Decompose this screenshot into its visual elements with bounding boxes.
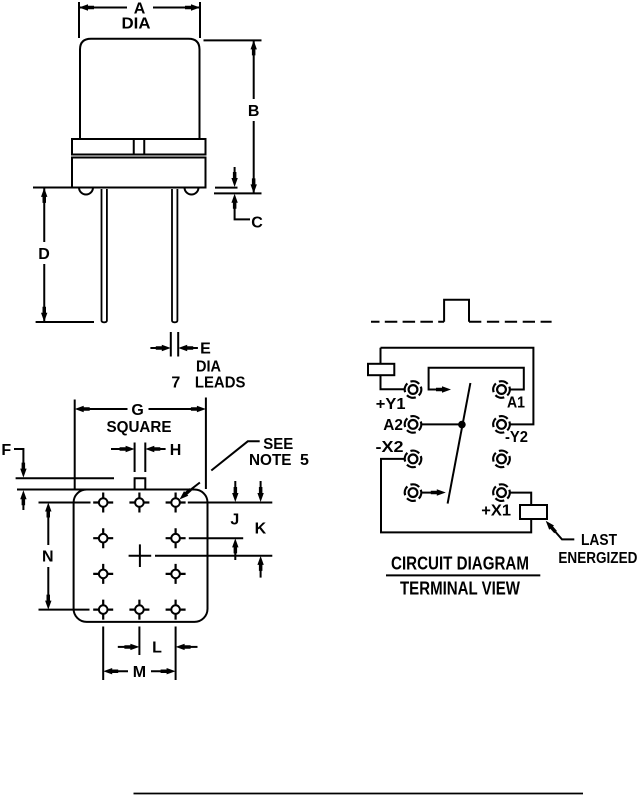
standoff foot left [79,188,93,195]
dimension K upper arrow [260,481,262,492]
svg-text:J: J [230,511,239,528]
terminal +X1 [491,482,512,503]
note 5 callout arrowhead [180,488,192,499]
svg-text:CIRCUIT DIAGRAM: CIRCUIT DIAGRAM [391,554,529,574]
terminal +Y1 [402,379,423,400]
coil X [520,505,547,519]
svg-text:-X2: -X2 [376,439,404,456]
svg-text:NOTE: NOTE [249,452,292,469]
svg-text:SQUARE: SQUARE [107,419,172,436]
svg-text:F: F [1,442,11,459]
dimension H left arrow [111,448,124,450]
dimension K lower arrow [257,556,263,571]
dimension F up arrow [20,490,26,505]
terminal pin row1 col1 [93,493,113,513]
dimension N arrowhead bottom [45,595,51,610]
svg-text:E: E [200,340,211,357]
relay base outline terminal view [74,490,208,622]
wire -X2 to X coil loop [381,459,531,533]
dimension N line [47,512,49,600]
terminal pin row3 col3 [166,564,186,584]
dimension M arrowhead right [161,668,176,674]
dimension B arrowhead bottom [251,178,257,193]
dimension G line [85,408,196,410]
dimension J lower arrow [232,538,238,553]
dimension F bracket and down arrow [14,449,23,468]
dimension H extension lines [135,443,146,473]
dimension L/M extension line col1 [102,627,104,681]
last energized arrowhead [546,521,557,533]
svg-text:LAST: LAST [581,532,617,549]
dimension G arrowhead right [191,406,206,412]
dimension H right arrow [156,448,166,450]
terminal pin row3 col1 [93,564,113,584]
terminal pin row4 col3 [166,600,186,620]
standoff foot right [185,188,199,195]
terminal A1 [491,379,512,400]
dimension A arrowhead right [185,4,200,10]
dimension F extension line notch top [16,477,114,479]
dimension J/K extension line row1 right [188,502,272,504]
svg-text:-Y2: -Y2 [505,429,528,446]
terminal pin row1 col2 [129,493,149,513]
dimension A arrowhead left [79,4,94,10]
dimension J extension line row2 right [189,537,243,539]
wire left edge to Y coil [381,348,405,389]
junction dot [458,421,466,429]
dimension D extension line bottom [36,321,94,323]
dimension C lower arrow [231,194,237,209]
dimension G extension line left [74,400,76,490]
dimension B extension line bottom (seating plane) [214,192,262,194]
bottom rule [134,793,584,795]
svg-text:DIA: DIA [196,358,221,375]
dimension N extension line bottom [39,609,90,611]
index dashed line right [469,321,552,323]
dimension E extension lines [171,332,178,357]
dimension J upper arrow [234,481,236,492]
dimension D line [43,188,45,322]
dimension B line [253,40,255,193]
terminal NC right [491,448,512,469]
last energized leader [553,529,575,540]
keying notch [135,478,146,489]
dimension L extension line col2 [138,627,140,656]
coil Y [368,364,394,375]
title underline [386,574,540,576]
lead L1 side view [102,189,107,322]
svg-text:SEE: SEE [263,436,293,453]
dimension E right arrow [189,347,198,349]
terminal pin row4 col1 [93,600,113,620]
dimension A extension line right [199,2,201,38]
terminal pin row1 col3 [166,493,186,513]
index dashed line left [371,321,444,323]
svg-text:7: 7 [171,374,180,391]
dimension L right arrow [186,646,197,648]
flange seam ticks [134,139,145,155]
svg-text:N: N [42,549,54,566]
wire A2 to blade [421,423,462,425]
svg-text:G: G [131,402,143,419]
svg-text:ENERGIZED: ENERGIZED [558,550,637,567]
wire L4 to blade [421,492,435,494]
terminal L4 [402,482,423,503]
switch blade [448,383,471,504]
wire Y-coil top loop [381,348,534,425]
note 5 callout leader [187,441,260,492]
svg-text:+Y1: +Y1 [376,396,406,413]
dimension D extension line top [33,187,71,189]
center crosshair [129,544,152,567]
terminal pin row2 col1 [93,528,113,548]
dimension L left arrow [118,646,129,648]
dimension G extension line right [205,398,207,490]
dimension C extension line (flange bottom) [215,187,238,189]
dimension N extension line top [39,502,91,504]
terminal -X2 [402,448,423,469]
terminal -Y2 [491,414,512,435]
svg-text:TERMINAL VIEW: TERMINAL VIEW [400,579,520,599]
can mounting flange band [72,139,206,155]
svg-text:LEADS: LEADS [195,374,246,391]
wire A1 inner loop [429,368,524,390]
terminal pin row2 col3 [166,528,186,548]
relay can body [80,39,200,140]
terminal A2 [402,414,423,435]
dimension F extension line square top [17,489,91,491]
arrow to blade lower [431,489,446,495]
can base block [72,158,206,188]
dimension D arrowhead top [41,188,47,203]
dimension N arrowhead top [45,503,51,518]
dimension A line [79,7,200,9]
svg-text:DIA: DIA [122,15,151,32]
dimension M line [114,670,166,672]
terminal pin row4 col2 [129,600,149,620]
arrow to blade upper [436,386,451,392]
svg-text:C: C [251,214,263,231]
dimension B extension line top [204,39,262,41]
dimension D arrowhead bottom [41,307,47,322]
svg-text:K: K [255,521,267,538]
svg-text:L: L [152,640,162,657]
lead L2 side view [172,189,177,322]
svg-text:5: 5 [300,452,309,469]
svg-text:D: D [38,246,50,263]
dimension K extension line center right [155,555,272,557]
dimension A extension line left [78,2,80,38]
svg-text:M: M [133,664,146,681]
dimension B arrowhead top [251,40,257,55]
svg-text:A1: A1 [507,394,525,411]
dimension L/M extension line col3 [175,627,177,681]
dimension G arrowhead left [75,406,90,412]
svg-text:H: H [170,442,182,459]
dimension C upper arrow [234,167,236,178]
svg-text:+X1: +X1 [481,503,511,520]
svg-text:B: B [248,103,260,120]
svg-text:A2: A2 [383,417,403,434]
dimension E left arrow [150,347,160,349]
dimension M arrowhead left [103,668,118,674]
index keying bump [444,300,469,322]
